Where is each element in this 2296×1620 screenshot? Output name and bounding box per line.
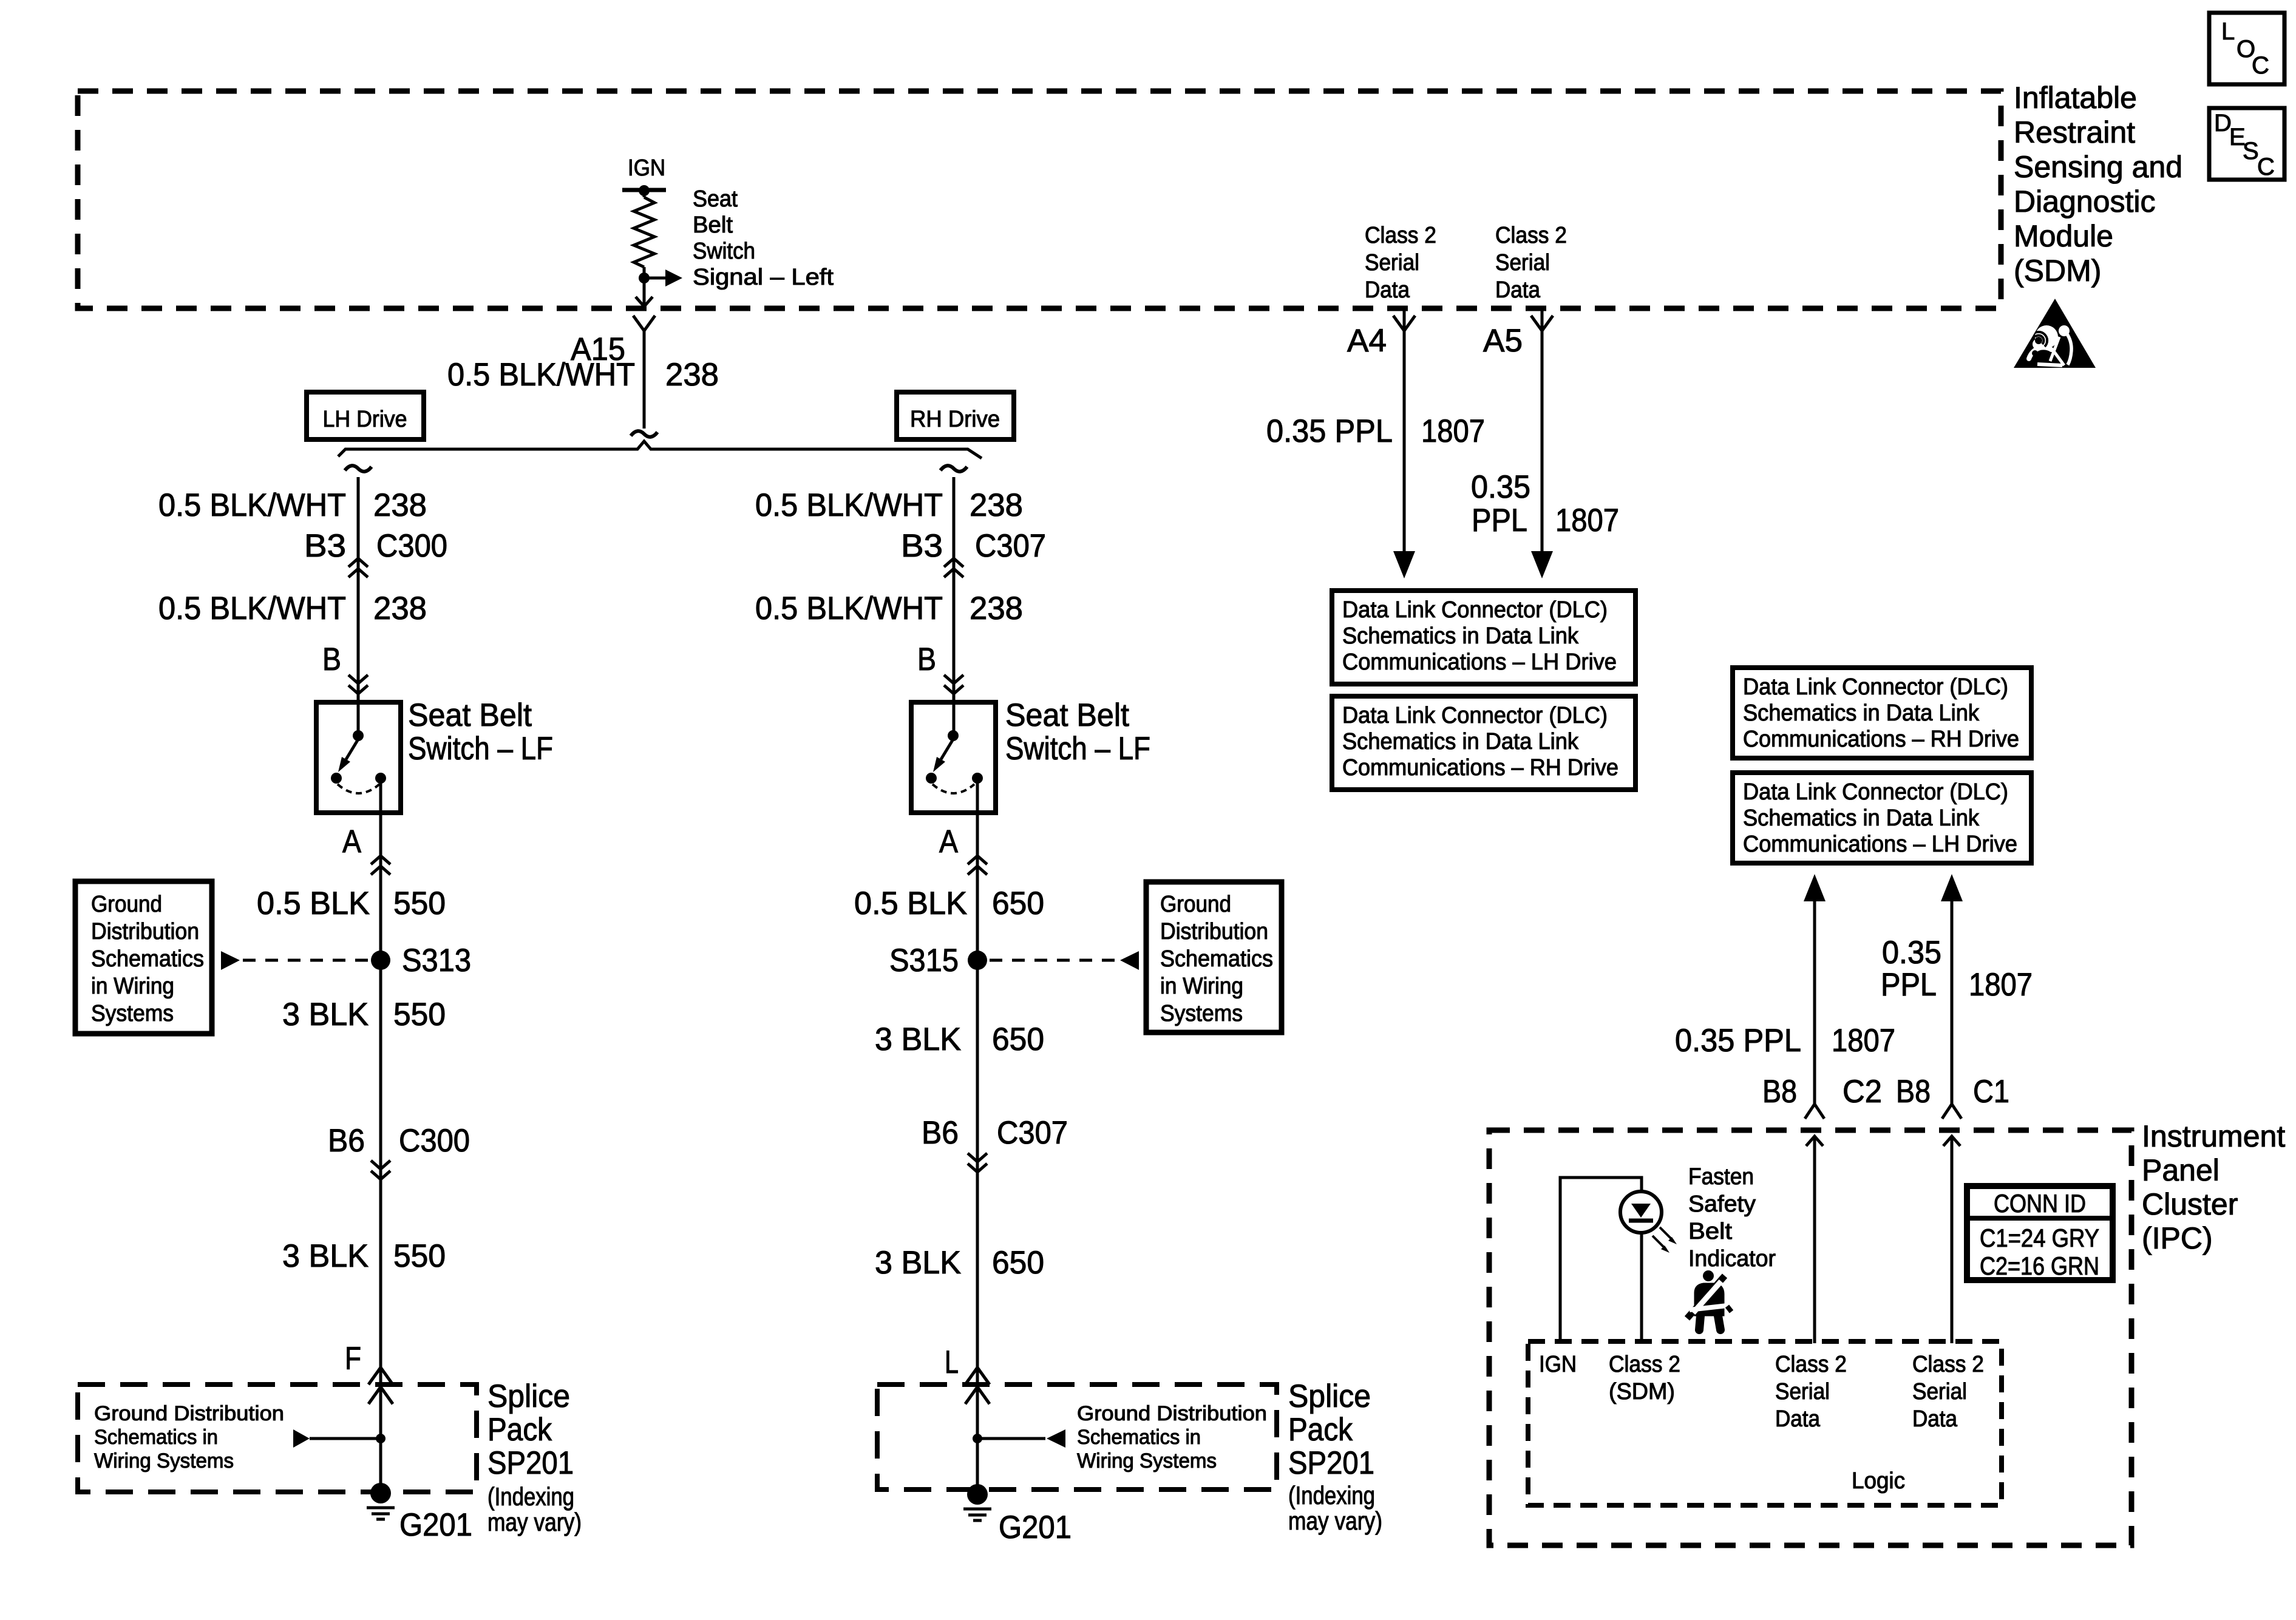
svg-text:Pack: Pack [487, 1412, 552, 1448]
svg-text:Schematics in Data Link: Schematics in Data Link [1342, 623, 1579, 649]
svg-text:Logic: Logic [1852, 1468, 1905, 1494]
svg-text:Diagnostic: Diagnostic [2014, 185, 2155, 219]
svg-text:CONN ID: CONN ID [1994, 1189, 2086, 1218]
svg-text:Data Link Connector (DLC): Data Link Connector (DLC) [1342, 703, 1608, 728]
svg-text:3 BLK: 3 BLK [282, 1238, 369, 1274]
svg-text:0.35: 0.35 [1882, 935, 1941, 971]
svg-text:B6: B6 [922, 1115, 959, 1151]
svg-text:Data: Data [1495, 277, 1541, 303]
svg-text:3 BLK: 3 BLK [282, 997, 369, 1032]
svg-text:L: L [945, 1344, 959, 1380]
svg-text:Ground: Ground [1160, 892, 1231, 917]
svg-text:Data: Data [1365, 277, 1410, 303]
svg-text:Communications – LH Drive: Communications – LH Drive [1743, 832, 2017, 857]
svg-text:Fasten: Fasten [1688, 1164, 1754, 1190]
svg-text:C307: C307 [997, 1115, 1068, 1151]
svg-text:Switch – LF: Switch – LF [408, 731, 553, 767]
svg-text:1807: 1807 [1832, 1023, 1895, 1059]
svg-text:238: 238 [373, 591, 427, 626]
svg-text:0.35 PPL: 0.35 PPL [1266, 413, 1393, 449]
svg-text:1807: 1807 [1969, 967, 2033, 1003]
svg-text:LH Drive: LH Drive [323, 407, 407, 432]
svg-text:IGN: IGN [1539, 1352, 1577, 1377]
svg-text:B: B [322, 642, 341, 677]
svg-text:Safety: Safety [1688, 1191, 1756, 1217]
svg-text:238: 238 [970, 591, 1023, 626]
svg-text:Schematics in: Schematics in [94, 1426, 218, 1449]
svg-text:L: L [2221, 18, 2235, 45]
svg-text:S315: S315 [889, 943, 959, 978]
svg-text:in Wiring: in Wiring [91, 974, 174, 999]
svg-text:Serial: Serial [1365, 250, 1419, 276]
svg-text:Belt: Belt [1688, 1219, 1732, 1244]
svg-text:650: 650 [992, 886, 1044, 921]
svg-text:B8: B8 [1762, 1074, 1797, 1110]
svg-text:3 BLK: 3 BLK [875, 1022, 961, 1057]
svg-text:in Wiring: in Wiring [1160, 974, 1243, 999]
svg-text:Class 2: Class 2 [1912, 1352, 1984, 1377]
svg-text:0.5 BLK/WHT: 0.5 BLK/WHT [755, 487, 943, 523]
svg-text:0.5 BLK: 0.5 BLK [257, 886, 370, 921]
svg-text:C300: C300 [376, 528, 447, 564]
svg-text:Restraint: Restraint [2014, 115, 2135, 149]
svg-text:Seat Belt: Seat Belt [408, 697, 532, 733]
svg-text:238: 238 [373, 487, 427, 523]
svg-text:650: 650 [992, 1022, 1044, 1057]
svg-text:PPL: PPL [1472, 503, 1527, 538]
svg-text:Ground Distribution: Ground Distribution [1077, 1402, 1267, 1425]
svg-text:C: C [2252, 52, 2269, 79]
svg-text:Data: Data [1775, 1406, 1821, 1432]
svg-text:0.5 BLK/WHT: 0.5 BLK/WHT [158, 487, 346, 523]
svg-text:(Indexing: (Indexing [487, 1482, 574, 1511]
svg-text:Serial: Serial [1775, 1379, 1830, 1405]
svg-text:Switch – LF: Switch – LF [1005, 731, 1150, 767]
svg-text:B: B [917, 642, 936, 677]
svg-text:Seat Belt: Seat Belt [1005, 697, 1129, 733]
svg-text:Module: Module [2014, 219, 2113, 253]
svg-text:Cluster: Cluster [2142, 1187, 2238, 1221]
svg-text:Wiring Systems: Wiring Systems [1077, 1449, 1217, 1473]
svg-text:Ground Distribution: Ground Distribution [94, 1402, 284, 1425]
svg-text:Pack: Pack [1288, 1412, 1353, 1448]
svg-text:Class 2: Class 2 [1495, 223, 1567, 248]
svg-text:238: 238 [665, 357, 719, 393]
svg-text:1807: 1807 [1421, 413, 1485, 449]
svg-text:Splice: Splice [487, 1378, 570, 1414]
svg-text:Systems: Systems [91, 1001, 174, 1026]
svg-text:(Indexing: (Indexing [1288, 1481, 1375, 1510]
svg-text:650: 650 [992, 1245, 1044, 1281]
svg-text:238: 238 [970, 487, 1023, 523]
svg-text:B8: B8 [1896, 1074, 1931, 1110]
svg-text:Instrument: Instrument [2142, 1119, 2285, 1153]
svg-text:Seat: Seat [693, 186, 738, 212]
svg-text:Switch: Switch [693, 239, 755, 264]
svg-text:0.35: 0.35 [1471, 469, 1530, 505]
svg-text:550: 550 [393, 886, 446, 921]
svg-text:Serial: Serial [1912, 1379, 1967, 1405]
svg-text:Serial: Serial [1495, 250, 1550, 276]
svg-text:Signal – Left: Signal – Left [693, 265, 834, 290]
svg-text:IGN: IGN [628, 155, 665, 181]
svg-text:may vary): may vary) [487, 1508, 582, 1536]
svg-text:A: A [939, 824, 959, 859]
svg-text:Class 2: Class 2 [1775, 1352, 1847, 1377]
svg-text:Data Link Connector (DLC): Data Link Connector (DLC) [1342, 597, 1608, 623]
svg-text:Sensing and: Sensing and [2014, 150, 2182, 184]
svg-text:Communications – LH Drive: Communications – LH Drive [1342, 649, 1617, 675]
svg-text:A5: A5 [1483, 323, 1523, 359]
svg-text:Splice: Splice [1288, 1378, 1371, 1414]
svg-text:SP201: SP201 [487, 1445, 574, 1481]
svg-text:Class 2: Class 2 [1365, 223, 1436, 248]
svg-text:0.5 BLK/WHT: 0.5 BLK/WHT [447, 357, 635, 393]
svg-text:C300: C300 [399, 1123, 470, 1159]
svg-text:Belt: Belt [693, 212, 733, 238]
svg-text:0.5 BLK/WHT: 0.5 BLK/WHT [755, 591, 943, 626]
svg-text:Schematics in Data Link: Schematics in Data Link [1743, 700, 1980, 726]
svg-text:C1: C1 [1973, 1074, 2009, 1110]
svg-text:Ground: Ground [91, 892, 162, 917]
svg-text:SP201: SP201 [1288, 1445, 1374, 1481]
svg-text:Distribution: Distribution [1160, 919, 1268, 944]
svg-text:Distribution: Distribution [91, 919, 199, 944]
svg-text:F: F [345, 1341, 361, 1377]
svg-text:(IPC): (IPC) [2142, 1221, 2213, 1255]
svg-text:B3: B3 [304, 528, 346, 564]
svg-text:Schematics: Schematics [91, 946, 204, 972]
svg-text:Schematics in Data Link: Schematics in Data Link [1342, 729, 1579, 754]
svg-text:Schematics in: Schematics in [1077, 1426, 1201, 1449]
svg-text:Inflatable: Inflatable [2014, 81, 2137, 115]
svg-text:RH Drive: RH Drive [910, 407, 1000, 432]
svg-text:(SDM): (SDM) [2014, 254, 2101, 288]
svg-text:550: 550 [393, 997, 446, 1032]
svg-text:Communications – RH Drive: Communications – RH Drive [1743, 727, 2019, 752]
svg-text:C1=24 GRY: C1=24 GRY [1980, 1224, 2099, 1252]
svg-text:3 BLK: 3 BLK [875, 1245, 961, 1281]
svg-text:Systems: Systems [1160, 1001, 1243, 1026]
svg-text:G201: G201 [999, 1510, 1072, 1545]
svg-text:S313: S313 [402, 943, 471, 978]
svg-text:Communications – RH Drive: Communications – RH Drive [1342, 755, 1618, 781]
svg-text:0.5 BLK/WHT: 0.5 BLK/WHT [158, 591, 346, 626]
svg-text:Data Link Connector (DLC): Data Link Connector (DLC) [1743, 779, 2008, 805]
svg-text:G201: G201 [399, 1507, 472, 1543]
svg-text:A4: A4 [1347, 323, 1387, 359]
svg-text:550: 550 [393, 1238, 446, 1274]
svg-text:B6: B6 [328, 1123, 365, 1159]
svg-text:C: C [2257, 154, 2275, 180]
svg-text:C2: C2 [1843, 1074, 1882, 1110]
svg-text:PPL: PPL [1881, 967, 1937, 1003]
svg-text:B3: B3 [901, 528, 943, 564]
svg-text:C2=16 GRN: C2=16 GRN [1980, 1252, 2099, 1280]
svg-text:Class 2: Class 2 [1609, 1352, 1680, 1377]
svg-text:Data Link Connector (DLC): Data Link Connector (DLC) [1743, 674, 2008, 700]
svg-text:Schematics in Data Link: Schematics in Data Link [1743, 805, 1980, 831]
svg-text:Schematics: Schematics [1160, 946, 1273, 972]
svg-text:C307: C307 [975, 528, 1046, 564]
svg-text:A: A [342, 824, 362, 859]
svg-text:0.35 PPL: 0.35 PPL [1675, 1023, 1801, 1059]
svg-text:Panel: Panel [2142, 1153, 2220, 1187]
svg-text:0.5 BLK: 0.5 BLK [854, 886, 967, 921]
svg-text:Indicator: Indicator [1688, 1246, 1776, 1272]
svg-text:Data: Data [1912, 1406, 1958, 1432]
svg-text:S: S [2243, 138, 2259, 164]
svg-text:(SDM): (SDM) [1609, 1379, 1675, 1405]
svg-text:may vary): may vary) [1288, 1506, 1382, 1535]
svg-text:Wiring Systems: Wiring Systems [94, 1449, 234, 1473]
svg-text:1807: 1807 [1555, 503, 1619, 538]
